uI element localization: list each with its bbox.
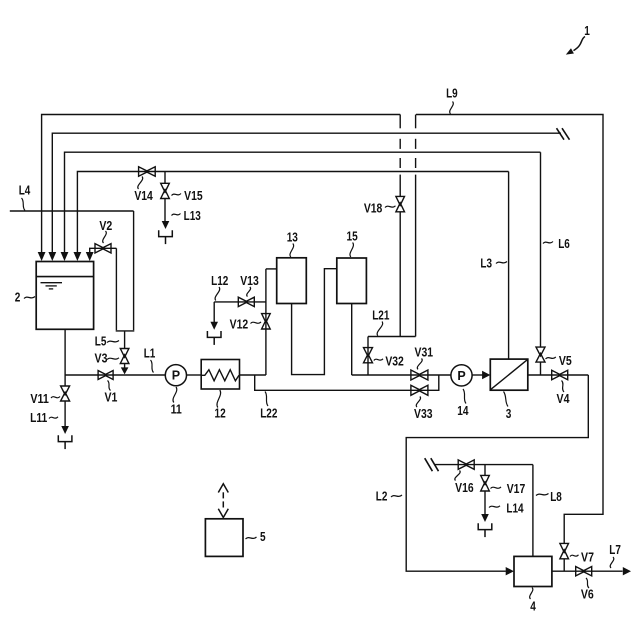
- svg-text:L8: L8: [550, 490, 562, 504]
- svg-text:V3: V3: [95, 352, 108, 366]
- svg-text:L21: L21: [372, 309, 389, 323]
- svg-text:12: 12: [215, 407, 226, 421]
- svg-text:L2: L2: [376, 489, 388, 503]
- svg-text:V7: V7: [581, 551, 594, 565]
- svg-text:3: 3: [506, 407, 512, 421]
- svg-text:L14: L14: [506, 502, 523, 516]
- svg-text:V15: V15: [184, 189, 203, 203]
- svg-text:11: 11: [171, 403, 182, 417]
- svg-text:P: P: [457, 369, 465, 383]
- svg-text:V33: V33: [414, 407, 433, 421]
- svg-text:V16: V16: [455, 481, 474, 495]
- svg-text:L12: L12: [211, 274, 228, 288]
- svg-text:L13: L13: [184, 209, 201, 223]
- svg-text:V4: V4: [557, 392, 570, 406]
- svg-text:V14: V14: [134, 189, 153, 203]
- svg-text:P: P: [172, 369, 180, 383]
- svg-text:V2: V2: [99, 219, 112, 233]
- svg-text:L3: L3: [480, 257, 492, 271]
- svg-text:V32: V32: [385, 355, 404, 369]
- svg-text:L9: L9: [446, 87, 458, 101]
- svg-text:V13: V13: [240, 274, 259, 288]
- svg-text:2: 2: [15, 291, 21, 305]
- svg-text:L1: L1: [144, 347, 156, 361]
- svg-text:L6: L6: [558, 237, 570, 251]
- svg-text:V18: V18: [364, 202, 383, 216]
- svg-text:L11: L11: [30, 411, 47, 425]
- svg-text:5: 5: [260, 530, 266, 544]
- svg-text:13: 13: [287, 231, 298, 245]
- svg-text:V17: V17: [507, 482, 526, 496]
- svg-text:L7: L7: [609, 543, 621, 557]
- svg-text:L22: L22: [260, 406, 277, 420]
- svg-text:1: 1: [584, 24, 590, 38]
- svg-text:L5: L5: [95, 335, 107, 349]
- svg-text:14: 14: [457, 404, 468, 418]
- svg-text:V6: V6: [581, 588, 594, 602]
- svg-text:V5: V5: [559, 354, 572, 368]
- svg-text:15: 15: [347, 230, 358, 244]
- svg-text:V1: V1: [104, 390, 117, 404]
- svg-text:V11: V11: [30, 392, 49, 406]
- svg-text:V12: V12: [230, 318, 249, 332]
- svg-text:V31: V31: [415, 346, 434, 360]
- svg-text:L4: L4: [19, 184, 31, 198]
- svg-text:4: 4: [530, 600, 536, 614]
